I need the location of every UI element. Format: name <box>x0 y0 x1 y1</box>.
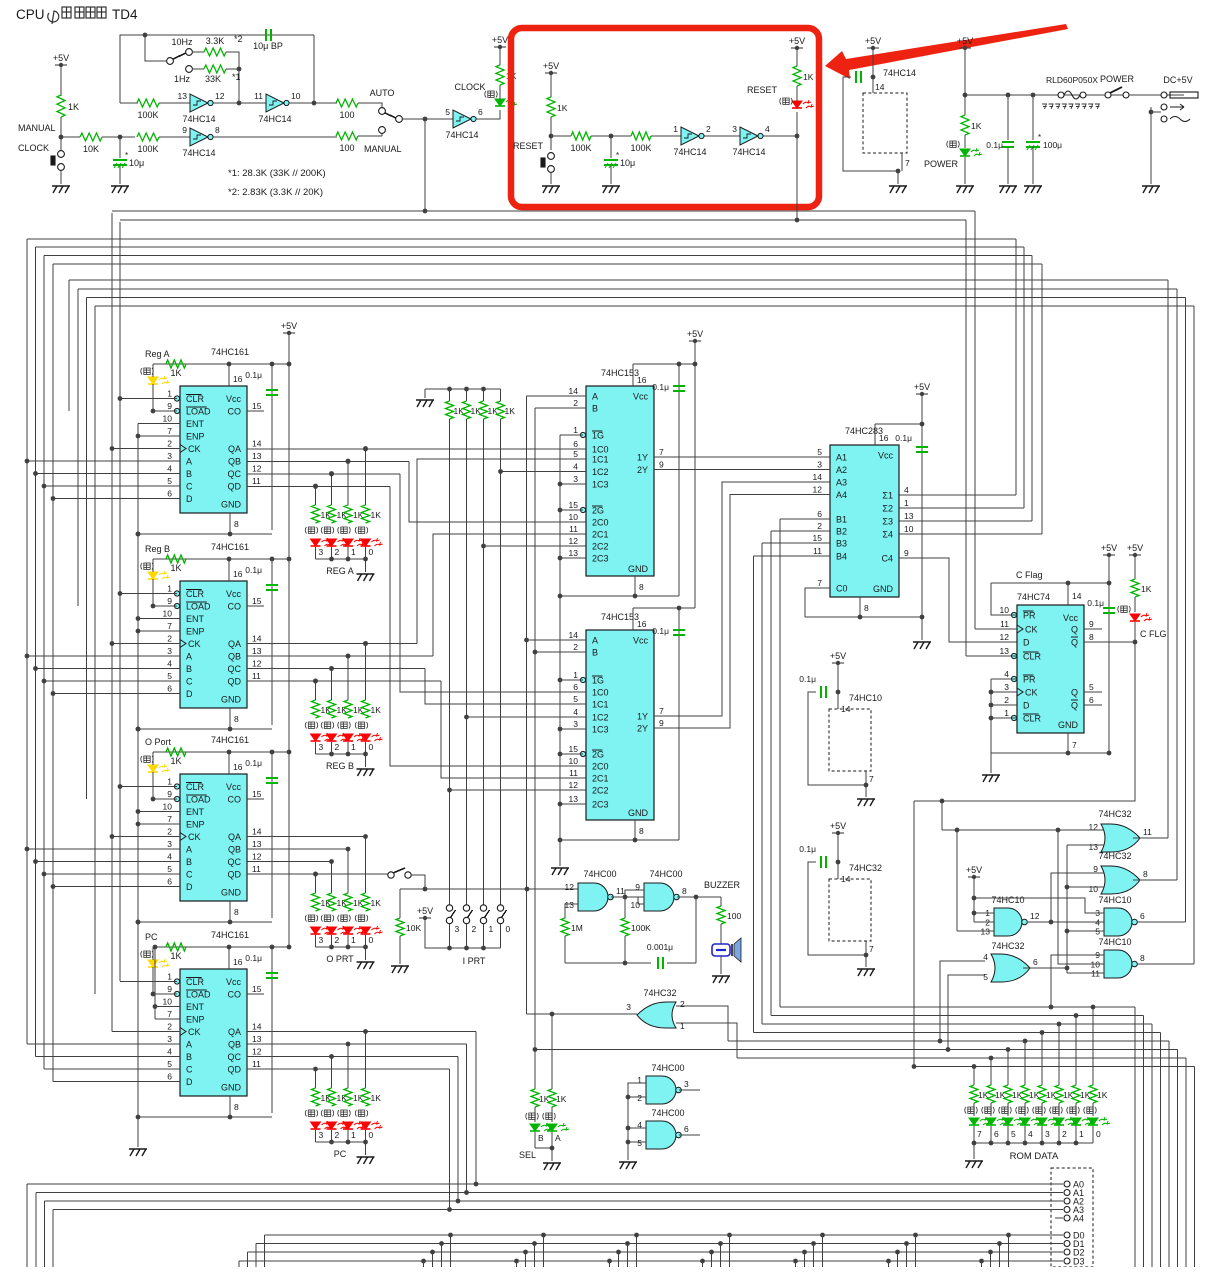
wire Reg A input B <box>36 473 181 475</box>
wire sum4 riser <box>1041 264 1043 534</box>
wire <box>102 136 135 138</box>
inverter U1D pins 11->10 <box>254 91 301 124</box>
wire <box>551 1132 553 1148</box>
svg-text:+5V: +5V <box>417 906 433 916</box>
capacitor C 0.1u (74HC153 #1) <box>673 386 685 391</box>
junction <box>151 409 156 414</box>
wire bypass loop <box>843 77 898 171</box>
wire <box>152 752 154 765</box>
wire load select line 2 <box>87 297 1186 299</box>
wire Reg B ENT <box>138 618 180 620</box>
svg-text:GND: GND <box>221 888 242 898</box>
junction 153#2 1C3 <box>558 727 563 732</box>
wire Reg A CLR <box>120 398 177 400</box>
wire <box>347 935 349 947</box>
wire to range switch pole <box>145 35 166 61</box>
svg-text:16: 16 <box>233 374 243 384</box>
IC 74HC14 power section (unused section, dashed) <box>863 93 907 153</box>
wire Reg B bypass <box>271 559 273 725</box>
svg-text:2: 2 <box>472 924 477 934</box>
wire A1 bottom trunk <box>35 1193 37 1268</box>
resistor R 10K <box>396 918 404 936</box>
svg-text:A: A <box>592 392 598 402</box>
label (red) <box>338 1110 351 1117</box>
svg-text:8: 8 <box>234 714 239 724</box>
junction <box>346 654 351 659</box>
wire high to NAND3.1 <box>974 912 994 914</box>
resistor R 1K (REG A bit) <box>312 505 320 523</box>
junction <box>153 945 158 950</box>
junction <box>1065 966 1070 971</box>
svg-text:CPU: CPU <box>16 7 45 22</box>
wire 153#2 1G <box>560 679 583 681</box>
svg-text:7: 7 <box>167 814 172 824</box>
svg-text:0.1μ: 0.1μ <box>652 382 669 392</box>
label (yellow) <box>141 756 154 763</box>
svg-text:Q: Q <box>1071 625 1078 635</box>
junction <box>447 946 452 951</box>
wire unused tie <box>990 679 992 753</box>
svg-text:10: 10 <box>163 414 173 424</box>
wire load vertical 0 <box>68 280 70 411</box>
svg-text:14: 14 <box>841 874 851 884</box>
ground (100u) <box>1024 186 1042 193</box>
svg-text:13: 13 <box>252 646 262 656</box>
wire A0 bottom trunk <box>26 1184 28 1267</box>
svg-text:10: 10 <box>291 91 301 101</box>
svg-text:1K: 1K <box>371 898 382 908</box>
resistor R 33K <box>204 65 226 73</box>
wire <box>449 389 451 401</box>
svg-text:CLOCK: CLOCK <box>454 82 485 92</box>
svg-text:2: 2 <box>680 999 685 1009</box>
wire data bus line 1 <box>36 246 1025 248</box>
label (red) <box>305 722 318 729</box>
svg-text:AUTO: AUTO <box>370 88 395 98</box>
wire matrix tap <box>999 1244 1001 1268</box>
wire +5V register trunk <box>288 333 290 947</box>
connector pin D0 <box>1064 1232 1070 1238</box>
capacitor C 0.1u (74HC74) <box>1103 608 1115 613</box>
svg-text:3: 3 <box>573 719 578 729</box>
wire LED to LOAD <box>152 772 154 799</box>
junction <box>623 961 628 966</box>
svg-text:74HC14: 74HC14 <box>182 114 215 124</box>
junction matrix tap <box>886 1259 891 1264</box>
junction <box>313 679 318 684</box>
piezo buzzer <box>712 944 730 956</box>
label (green) <box>1016 1107 1029 1114</box>
wire rom led col <box>990 1058 992 1085</box>
wire rom led col <box>1024 1041 1026 1085</box>
wire <box>990 753 992 773</box>
capacitor C 100u (electrolytic) <box>1026 142 1040 147</box>
svg-text:QB: QB <box>228 845 241 855</box>
svg-text:*2: 2.83K (3.3K // 20K): *2: 2.83K (3.3K // 20K) <box>228 187 323 198</box>
wire ROM data line D0 <box>780 1006 1135 1008</box>
svg-text:9: 9 <box>167 984 172 994</box>
junction <box>1056 828 1061 833</box>
+5V (283) <box>914 382 930 396</box>
wire address line A2 <box>45 1200 1064 1202</box>
svg-text:+5V: +5V <box>789 36 805 46</box>
wire <box>358 103 382 108</box>
LED REG A bit <box>343 538 365 546</box>
svg-text:11: 11 <box>254 91 263 101</box>
wire clock to CK <box>975 628 1017 630</box>
wire enable/ground trunk <box>137 424 139 1148</box>
junction matrix tap <box>895 1250 900 1255</box>
wire <box>152 364 154 377</box>
+5V (I PRT) <box>417 906 433 920</box>
wire select B <box>534 408 536 1050</box>
svg-text:D: D <box>1023 701 1030 711</box>
wire <box>551 1107 553 1122</box>
wire OR output to select A <box>527 1013 638 1015</box>
wire O Port input B <box>36 861 181 863</box>
junction <box>270 362 275 367</box>
junction matrix tap <box>616 1250 621 1255</box>
wire sum1 stub <box>899 494 1016 496</box>
wire 74 gnd row <box>991 752 1109 754</box>
svg-text:10: 10 <box>904 524 914 534</box>
LED O PRT bit <box>327 926 349 934</box>
wire ROM D4 right trunk <box>1168 1041 1170 1267</box>
svg-text:Vcc: Vcc <box>633 636 649 646</box>
label (green) <box>947 141 960 148</box>
svg-text:74HC10: 74HC10 <box>991 895 1024 905</box>
junction matrix tap <box>709 1250 714 1255</box>
svg-text:2: 2 <box>167 1022 172 1032</box>
svg-text:2C0: 2C0 <box>592 762 609 772</box>
svg-text:3: 3 <box>1045 1129 1050 1139</box>
svg-text:1: 1 <box>167 584 172 594</box>
junction matrix tap <box>541 1233 546 1238</box>
svg-text:74HC32: 74HC32 <box>849 863 882 873</box>
junction <box>346 945 351 950</box>
svg-text:MANUAL: MANUAL <box>364 144 402 154</box>
wire 1C3 <box>560 483 586 485</box>
label (yellow) <box>141 951 154 958</box>
junction matrix tap <box>793 1259 798 1264</box>
svg-text:1K: 1K <box>371 705 382 715</box>
svg-text:1K: 1K <box>170 756 181 766</box>
svg-text:11: 11 <box>252 1059 261 1069</box>
svg-text:A: A <box>592 636 598 646</box>
resistor R 1K (rom led) <box>1072 1085 1080 1103</box>
svg-text:D3: D3 <box>1073 1257 1085 1267</box>
svg-text:Σ2: Σ2 <box>882 504 893 514</box>
wire PC Vcc rail <box>153 946 289 948</box>
wire B1 <box>780 518 830 520</box>
wire feedback riser <box>695 897 697 963</box>
svg-text:5: 5 <box>445 107 450 117</box>
svg-text:DC+5V: DC+5V <box>1163 75 1192 85</box>
svg-text:1K: 1K <box>170 368 181 378</box>
svg-text:1: 1 <box>573 425 578 435</box>
svg-text:11: 11 <box>252 476 261 486</box>
wire rom led col <box>1041 1033 1043 1086</box>
wire matrix tap <box>888 1261 890 1267</box>
wire B4 <box>754 555 831 557</box>
wire Reg A ENP <box>138 435 180 437</box>
svg-text:1C0: 1C0 <box>592 445 609 455</box>
svg-text:100: 100 <box>339 143 354 153</box>
wire D1 bottom corner <box>255 1244 257 1268</box>
svg-text:QD: QD <box>228 1065 242 1075</box>
junction <box>1074 1141 1079 1146</box>
svg-text:2C1: 2C1 <box>592 774 609 784</box>
wire ROM D6 right trunk <box>1185 1058 1187 1267</box>
svg-text:13: 13 <box>1000 646 1010 656</box>
wire <box>1075 1103 1077 1116</box>
svg-text:13: 13 <box>178 91 188 101</box>
junction <box>136 532 141 537</box>
resistor R 1K (input pull) <box>463 401 471 419</box>
svg-text:74HC00: 74HC00 <box>649 869 682 879</box>
wire +5V to R <box>60 65 62 96</box>
wire O Port bypass <box>271 752 273 918</box>
switch lever <box>385 113 396 118</box>
wire O PRT led col <box>331 862 333 894</box>
wire REG A led col <box>365 449 367 506</box>
wire <box>153 798 177 800</box>
junction <box>329 666 334 671</box>
svg-text:B1: B1 <box>836 515 847 525</box>
NAND gate 74HC00 buzzer A <box>578 883 608 911</box>
pin 13 CLR <box>1011 653 1016 658</box>
junction <box>346 847 351 852</box>
svg-text:10: 10 <box>1089 884 1099 894</box>
svg-text:1: 1 <box>904 498 909 508</box>
svg-text:15: 15 <box>252 596 262 606</box>
svg-text:REG A: REG A <box>326 566 354 576</box>
svg-text:1K: 1K <box>557 103 568 113</box>
svg-text:*: * <box>616 151 619 160</box>
wire PC QB to A1 <box>466 1044 468 1193</box>
junction <box>456 1199 461 1204</box>
svg-text:PR: PR <box>1023 675 1036 685</box>
label (red) <box>305 527 318 534</box>
svg-text:10: 10 <box>1000 605 1010 615</box>
junction gnd <box>896 169 901 174</box>
resistor R 1K (REG A bit) <box>344 505 352 523</box>
wire 74HC153 #2 Vcc rail <box>633 607 695 609</box>
junction 153#2 2C3 <box>558 802 563 807</box>
wire 74HC153 #1 gnd row <box>560 595 679 597</box>
junction <box>227 362 232 367</box>
junction matrix tap <box>979 1259 984 1264</box>
junction <box>972 896 977 901</box>
wire pin7 <box>865 771 867 785</box>
label (red) <box>355 722 368 729</box>
svg-text:100μ: 100μ <box>1043 140 1062 150</box>
wire PC output row <box>247 1056 458 1058</box>
wire <box>1041 1103 1043 1116</box>
resistor R 1K (O PRT bit) <box>362 893 370 911</box>
svg-text:10: 10 <box>569 512 579 522</box>
svg-text:3: 3 <box>626 1002 631 1012</box>
junction <box>955 828 960 833</box>
wire matrix tap <box>720 1244 722 1268</box>
junction 0.1u <box>1006 93 1011 98</box>
wire <box>153 605 177 607</box>
svg-text:12: 12 <box>813 485 823 495</box>
resistor R 1K (REG B bit) <box>344 700 352 718</box>
LED CLOCK (green) <box>495 98 517 106</box>
svg-text:13: 13 <box>252 1034 262 1044</box>
svg-text:6: 6 <box>573 439 578 449</box>
junction <box>423 887 428 892</box>
svg-text:15: 15 <box>252 789 262 799</box>
junction matrix tap <box>430 1250 435 1255</box>
svg-text:13: 13 <box>569 794 579 804</box>
svg-text:3: 3 <box>455 924 460 934</box>
junction <box>346 1140 351 1145</box>
IC O Port 74HC161 body <box>180 774 247 901</box>
wire out stub <box>679 1089 700 1091</box>
label (red) <box>355 527 368 534</box>
wire 153#2 2C3 <box>560 803 586 805</box>
svg-text:1Y: 1Y <box>637 453 648 463</box>
wire input column <box>449 419 451 905</box>
svg-text:4: 4 <box>167 464 172 474</box>
svg-text:8: 8 <box>215 125 220 135</box>
wire O PRT led common <box>316 946 366 948</box>
svg-text:1: 1 <box>167 777 172 787</box>
wire O Port CLR <box>120 786 177 788</box>
resistor R 1K (Reg B load led) <box>166 555 186 563</box>
wire <box>628 1096 646 1098</box>
LED REG B bit <box>311 733 333 741</box>
svg-text:15: 15 <box>252 984 262 994</box>
svg-text:6: 6 <box>1089 695 1094 705</box>
label (red) <box>338 722 351 729</box>
wire PR1 high <box>991 583 1017 615</box>
junction <box>1065 885 1070 890</box>
wire 2C2 <box>484 545 587 547</box>
svg-text:11: 11 <box>813 546 822 556</box>
svg-text:Vcc: Vcc <box>226 977 242 987</box>
wire QD to 153#2 2C1 <box>441 681 586 778</box>
svg-text:74HC283: 74HC283 <box>845 426 883 436</box>
wire Qbar out <box>1084 641 1135 643</box>
junction bus to register input <box>25 847 30 852</box>
svg-text:*1: *1 <box>232 72 241 82</box>
svg-text:0.1μ: 0.1μ <box>245 565 262 575</box>
resistor R 1K (input pull) <box>497 401 505 419</box>
svg-text:QD: QD <box>228 482 242 492</box>
pin 1 CLR <box>174 979 179 984</box>
LED REG A bit <box>327 538 349 546</box>
svg-text:CK: CK <box>188 444 201 454</box>
svg-text:CLR: CLR <box>186 394 205 404</box>
wire data line D1 <box>256 1243 1063 1245</box>
pushbutton MANUAL CLOCK <box>51 151 64 171</box>
wire ROM data line D3 <box>754 1032 1161 1034</box>
svg-text:QB: QB <box>228 1040 241 1050</box>
wire RegB QD <box>247 680 441 682</box>
wire pin7 <box>865 941 867 955</box>
svg-text:9: 9 <box>1089 619 1094 629</box>
svg-text:74HC161: 74HC161 <box>211 347 249 357</box>
svg-text:0: 0 <box>369 547 374 557</box>
svg-text:16: 16 <box>637 375 647 385</box>
svg-text:2C2: 2C2 <box>592 542 609 552</box>
switch contact 1Hz <box>186 66 193 73</box>
junction <box>363 834 368 839</box>
svg-text:5: 5 <box>573 449 578 459</box>
junction <box>989 690 994 695</box>
svg-text:1C0: 1C0 <box>592 688 609 698</box>
svg-text:QB: QB <box>228 457 241 467</box>
ground (mux enables) <box>551 868 569 875</box>
junction rom led <box>1006 1047 1011 1052</box>
LED ROM DATA bit 3 <box>1037 1117 1059 1125</box>
junction matrix tap <box>1006 1233 1011 1238</box>
wire <box>865 955 867 967</box>
resistor R 1K (REG B bit) <box>328 700 336 718</box>
svg-text:74HC10: 74HC10 <box>849 693 882 703</box>
wire 153#2 1C3 <box>560 728 586 730</box>
wire D2 bottom corner <box>247 1252 249 1267</box>
wire PC QD to A3 <box>449 1069 451 1210</box>
junction matrix tap <box>727 1233 732 1238</box>
svg-text:ENT: ENT <box>186 807 205 817</box>
wire rom led col <box>1075 1016 1077 1086</box>
svg-text:15: 15 <box>252 401 262 411</box>
label (red) <box>321 527 334 534</box>
svg-text:CLR: CLR <box>186 589 205 599</box>
svg-text:LOAD: LOAD <box>186 990 211 1000</box>
wire spare inputs tie <box>628 1083 646 1160</box>
svg-text:0.1μ: 0.1μ <box>895 433 912 443</box>
junction 100u <box>1031 93 1036 98</box>
LED POWER (green) <box>960 148 982 156</box>
svg-text:2: 2 <box>1004 695 1009 705</box>
resistor R 1K (sel) <box>548 1089 556 1107</box>
wire O Port input C <box>44 873 180 875</box>
wire pin16 <box>228 364 230 386</box>
label (green) <box>1033 1107 1046 1114</box>
ground (power led) <box>956 186 974 193</box>
svg-text:Vcc: Vcc <box>633 392 649 402</box>
svg-text:PR: PR <box>1023 611 1036 621</box>
resistor R 1K (O PRT bit) <box>312 893 320 911</box>
svg-text:B3: B3 <box>836 539 847 549</box>
junction matrix tap <box>421 1259 426 1264</box>
svg-text:C4: C4 <box>881 554 893 564</box>
junction <box>481 387 486 392</box>
wire PC input D <box>53 1081 180 1083</box>
svg-text:RESET: RESET <box>747 85 778 95</box>
junction <box>694 895 699 900</box>
wire <box>973 1103 975 1116</box>
label (green) <box>526 1113 539 1120</box>
wire load vertical 1 <box>77 289 79 606</box>
svg-text:QA: QA <box>228 832 241 842</box>
wire pin14 <box>1067 583 1069 605</box>
wire REG B led col <box>365 644 367 701</box>
svg-text:LOAD: LOAD <box>186 407 211 417</box>
svg-text:100: 100 <box>339 110 354 120</box>
resistor R 1M <box>561 918 569 936</box>
junction bus to register input <box>33 666 38 671</box>
wire C flag to decoder <box>914 642 1135 801</box>
svg-text:3: 3 <box>732 124 737 134</box>
svg-text:POWER: POWER <box>1100 74 1135 84</box>
capacitor C 0.1u (Reg A) <box>266 390 278 395</box>
